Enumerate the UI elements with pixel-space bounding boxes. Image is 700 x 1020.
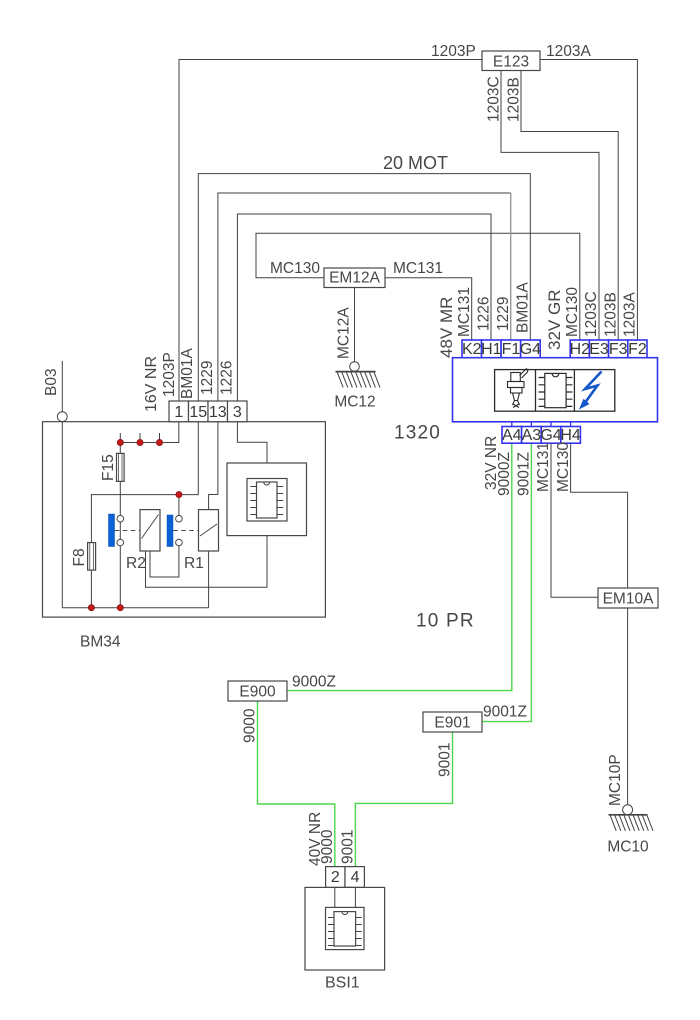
svg-text:H4: H4 [560,427,581,444]
svg-text:1229: 1229 [495,297,512,331]
svg-text:MC131: MC131 [535,442,552,492]
svg-text:9000Z: 9000Z [292,674,336,691]
svg-text:1320: 1320 [394,423,441,444]
svg-text:E123: E123 [493,54,529,71]
svg-text:9001: 9001 [437,743,454,777]
svg-text:16V NR: 16V NR [143,356,160,412]
svg-text:K2: K2 [462,341,482,358]
svg-text:1229: 1229 [199,361,216,395]
svg-text:MC12A: MC12A [336,307,353,359]
svg-text:BSI1: BSI1 [325,975,360,992]
svg-text:E901: E901 [434,715,470,732]
svg-text:E900: E900 [239,684,276,701]
svg-text:1: 1 [174,404,183,421]
svg-text:MC130: MC130 [555,442,572,492]
svg-text:MC10P: MC10P [607,754,624,806]
svg-text:1203C: 1203C [583,291,600,337]
svg-text:MC131: MC131 [456,287,473,337]
svg-text:1203C: 1203C [486,76,503,122]
svg-text:1226: 1226 [219,361,236,395]
svg-text:BM01A: BM01A [179,348,196,399]
svg-text:F1: F1 [502,341,521,358]
svg-text:48V MR: 48V MR [437,297,456,358]
svg-text:A4: A4 [502,427,522,444]
svg-text:G4: G4 [540,427,561,444]
svg-text:20 MOT: 20 MOT [383,153,448,173]
svg-text:MC131: MC131 [393,260,443,277]
svg-text:MC10: MC10 [607,839,649,856]
svg-text:BM34: BM34 [80,634,121,651]
svg-text:G4: G4 [520,341,541,358]
svg-text:15: 15 [189,404,207,421]
svg-text:F8: F8 [71,548,88,566]
svg-text:32V GR: 32V GR [545,290,564,350]
svg-text:F3: F3 [609,341,628,358]
svg-text:1203B: 1203B [506,77,523,122]
svg-text:9001Z: 9001Z [483,704,527,721]
svg-text:MC130: MC130 [564,287,581,337]
svg-text:EM12A: EM12A [329,270,380,287]
svg-text:1203B: 1203B [602,292,619,337]
svg-text:3: 3 [233,404,242,421]
svg-text:9000Z: 9000Z [496,452,513,496]
svg-text:1226: 1226 [476,297,493,331]
svg-text:B03: B03 [43,368,60,396]
svg-text:9000: 9000 [242,708,259,743]
svg-text:MC12: MC12 [334,394,375,411]
svg-text:4: 4 [351,869,360,886]
svg-text:EM10A: EM10A [603,591,654,608]
svg-text:F2: F2 [628,341,647,358]
svg-text:A3: A3 [522,427,542,444]
svg-text:9001Z: 9001Z [516,452,533,496]
svg-text:1203A: 1203A [546,43,591,60]
svg-text:1203P: 1203P [161,352,178,397]
svg-text:MC130: MC130 [270,260,320,277]
svg-text:10 PR: 10 PR [416,611,475,632]
svg-text:BM01A: BM01A [515,282,532,333]
svg-text:9000: 9000 [319,829,336,864]
svg-text:R1: R1 [184,555,204,572]
svg-text:13: 13 [209,404,227,421]
svg-text:R2: R2 [126,555,146,572]
svg-text:1203P: 1203P [431,43,476,60]
svg-text:1203A: 1203A [622,292,639,337]
svg-text:H2: H2 [570,341,591,358]
svg-text:H1: H1 [481,341,502,358]
svg-text:9001: 9001 [340,830,357,864]
svg-text:E3: E3 [589,341,609,358]
svg-text:F15: F15 [100,454,117,481]
svg-text:2: 2 [331,869,340,886]
